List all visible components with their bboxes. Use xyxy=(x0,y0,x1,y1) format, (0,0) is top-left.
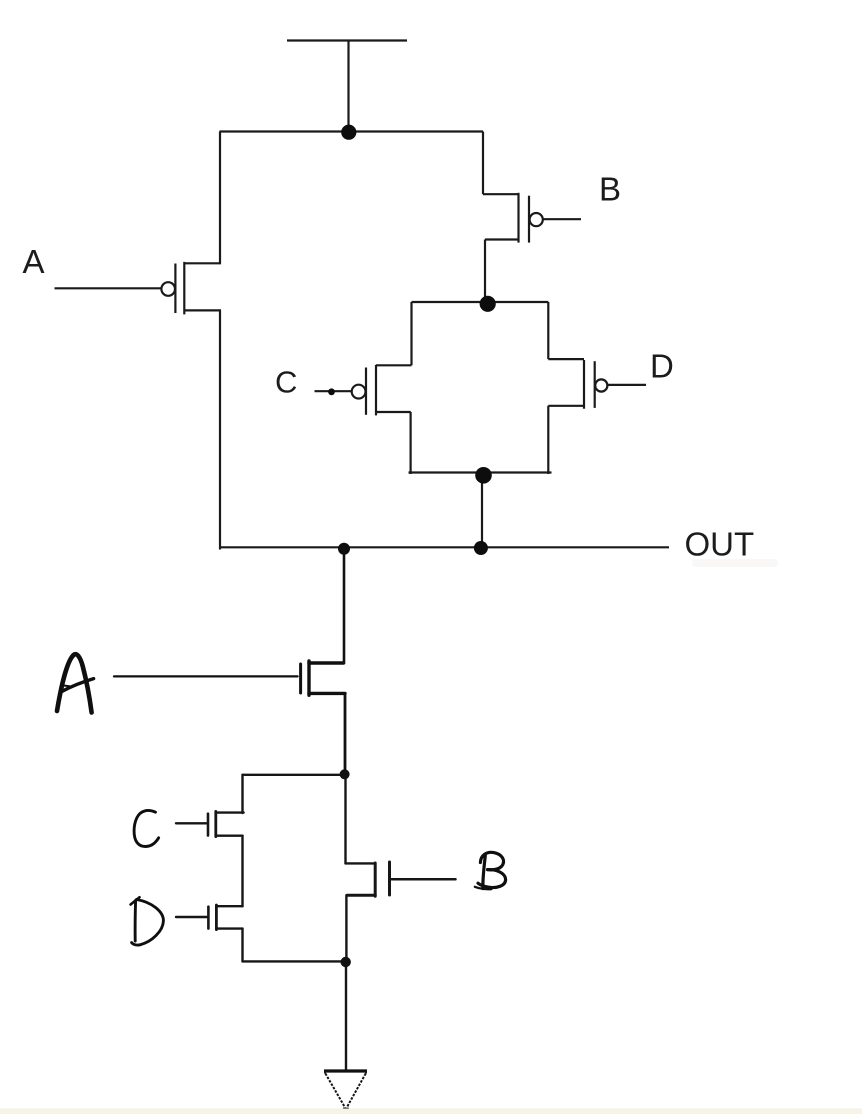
svg-text:A: A xyxy=(23,243,45,280)
svg-text:C: C xyxy=(275,364,297,399)
svg-text:B: B xyxy=(599,171,621,208)
svg-text:D: D xyxy=(650,347,674,384)
svg-text:OUT: OUT xyxy=(685,526,755,563)
